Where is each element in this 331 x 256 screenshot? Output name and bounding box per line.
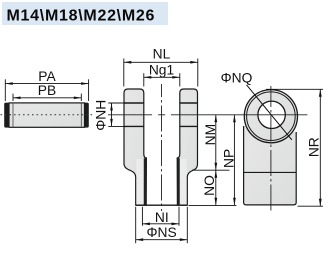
extension line hole axis to NP bbox=[171, 114, 236, 116]
svg-text:M14\M18\M22\M26: M14\M18\M22\M26 bbox=[7, 8, 156, 25]
dimension PB bbox=[13, 83, 81, 101]
label PhiNQ with leader bbox=[221, 70, 292, 140]
vertical centerline middle view bbox=[161, 84, 163, 211]
dimension PhiNS bbox=[136, 207, 188, 243]
pin groove lines bbox=[12, 104, 14, 127]
title bar bbox=[2, 2, 168, 25]
stud bottom edge bbox=[136, 204, 188, 206]
eye head ring circle bbox=[247, 92, 296, 141]
pin left cap bbox=[4, 103, 9, 128]
dimension NO bbox=[202, 170, 217, 205]
dimension PhiNH bbox=[94, 100, 127, 131]
dimension NL bbox=[124, 46, 198, 86]
dimension NI bbox=[142, 207, 179, 226]
svg-text:ΦNH: ΦNH bbox=[94, 100, 109, 131]
pin P1 body bbox=[9, 103, 85, 127]
svg-text:ΦNS: ΦNS bbox=[147, 225, 177, 240]
svg-text:NM: NM bbox=[203, 124, 218, 145]
clevis body right half bbox=[177, 89, 197, 205]
svg-text:NL: NL bbox=[153, 46, 171, 61]
svg-text:PB: PB bbox=[38, 83, 56, 98]
dimension NP bbox=[221, 115, 236, 205]
ledge extension line bbox=[192, 169, 230, 171]
dimension Ng1 bbox=[144, 63, 180, 87]
svg-text:NP: NP bbox=[221, 149, 236, 168]
right view horizontal centerline bbox=[236, 114, 307, 116]
dimension PA bbox=[5, 69, 88, 101]
svg-text:Ng1: Ng1 bbox=[149, 63, 174, 78]
right view vertical centerline bbox=[270, 86, 272, 211]
pin right cap bbox=[84, 103, 89, 128]
pin centerline bbox=[1, 114, 96, 116]
svg-text:ΦNQ: ΦNQ bbox=[221, 70, 253, 85]
thread relief strips bbox=[136, 159, 144, 204]
eye body (side view) bbox=[244, 126, 297, 205]
clevis body left half bbox=[124, 89, 146, 205]
dimension NM bbox=[203, 115, 218, 170]
dimension NR bbox=[266, 89, 323, 206]
pin hole circle bbox=[258, 101, 285, 128]
horizontal centerline middle view bbox=[108, 114, 152, 116]
bottom extension line to NP bbox=[189, 204, 237, 206]
pin hole edge lines bbox=[124, 102, 144, 104]
svg-text:NI: NI bbox=[155, 210, 169, 225]
threaded channel walls (thread minor) bbox=[144, 158, 146, 204]
svg-text:PA: PA bbox=[38, 69, 56, 84]
svg-text:NO: NO bbox=[202, 175, 217, 196]
svg-text:NR: NR bbox=[306, 137, 321, 157]
body divider line bbox=[244, 171, 297, 173]
eye head outer circle bbox=[244, 90, 297, 143]
